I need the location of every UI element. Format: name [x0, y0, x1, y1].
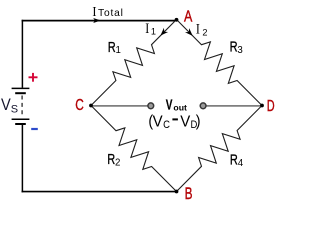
- label R1: [108, 38, 121, 55]
- resistor R2 (node C to node B): [91, 106, 177, 192]
- wire D to Vout right terminal (gray): [206, 105, 262, 107]
- svg-text:): ): [196, 112, 201, 130]
- svg-text:C: C: [75, 95, 84, 113]
- svg-text:3: 3: [237, 45, 242, 56]
- svg-text:B: B: [185, 185, 193, 202]
- wire bottom (bottom corner to node B): [22, 191, 177, 193]
- label Vout: [166, 97, 187, 113]
- svg-text:I: I: [145, 20, 149, 37]
- battery VS short plate top: [15, 92, 26, 94]
- svg-text:R: R: [230, 151, 238, 168]
- svg-text:R: R: [107, 151, 115, 168]
- node C: [89, 104, 93, 108]
- battery VS long plate bottom: [12, 118, 30, 120]
- svg-text:V: V: [180, 113, 191, 130]
- svg-text:I: I: [196, 20, 200, 37]
- label A (node A): [184, 8, 193, 26]
- label D (node D): [267, 97, 275, 114]
- resistor R1 (node A to node C): [91, 20, 177, 106]
- svg-text:V: V: [1, 96, 11, 114]
- arrow I2 (current from A into R3 branch): [185, 28, 193, 36]
- svg-text:1: 1: [116, 45, 121, 56]
- label (VC - VD): [148, 112, 200, 131]
- label R4: [230, 151, 244, 169]
- svg-text:out: out: [173, 103, 187, 113]
- svg-text:S: S: [11, 104, 18, 116]
- node D: [260, 104, 264, 108]
- wire left lower (battery bottom to bottom corner): [21, 125, 23, 193]
- battery VS dashed cell link: [21, 96, 23, 118]
- svg-text:1: 1: [151, 27, 156, 37]
- label R3: [230, 38, 243, 56]
- label B (node B): [185, 185, 193, 203]
- label R2: [107, 151, 120, 169]
- label I2: [196, 20, 208, 37]
- arrow I1 (current from A into R1 branch): [160, 28, 168, 36]
- svg-text:4: 4: [238, 158, 244, 169]
- battery VS long plate top: [12, 87, 30, 89]
- svg-text:D: D: [267, 97, 275, 114]
- wire left upper (top corner down to battery top plate): [21, 20, 23, 88]
- svg-text:2: 2: [202, 27, 207, 37]
- svg-text:V: V: [153, 113, 164, 130]
- label + (battery positive terminal): [29, 73, 38, 82]
- svg-text:A: A: [184, 8, 193, 26]
- svg-text:2: 2: [115, 158, 120, 169]
- svg-text:R: R: [230, 38, 238, 55]
- node B: [175, 190, 179, 194]
- label C (node C): [75, 95, 84, 113]
- node A: [175, 18, 179, 22]
- svg-text:V: V: [166, 97, 173, 113]
- Vout right terminal: [200, 103, 206, 109]
- I_Total arrow on top wire: [93, 18, 101, 23]
- resistor R4 (node B to node D): [177, 106, 263, 192]
- svg-text:R: R: [108, 38, 116, 55]
- label VS (battery voltage source): [1, 96, 18, 115]
- svg-text:I: I: [92, 3, 96, 19]
- Vout left terminal: [148, 103, 154, 109]
- label I_Total: [92, 3, 96, 19]
- wire C to Vout left terminal (gray): [91, 105, 148, 107]
- wire top (battery positive to node A): [22, 20, 177, 22]
- svg-text:Total: Total: [98, 8, 124, 19]
- label - (battery negative terminal): [31, 128, 38, 130]
- svg-text:C: C: [163, 120, 170, 132]
- label I1: [145, 20, 156, 37]
- resistor R3 (node A to node D): [177, 20, 263, 106]
- battery VS short plate bottom: [15, 123, 26, 125]
